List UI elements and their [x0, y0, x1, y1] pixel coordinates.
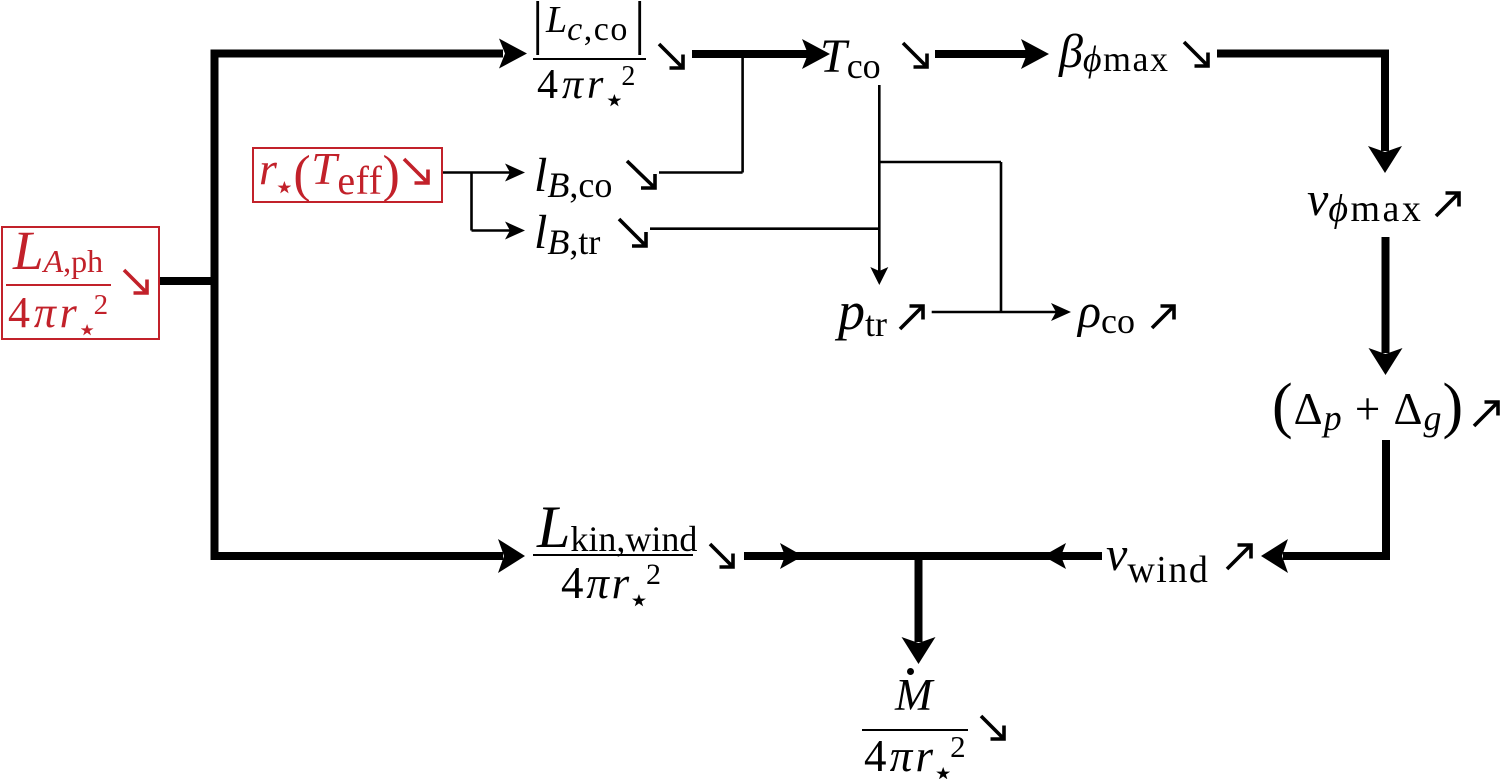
node Mdot overdot	[907, 668, 914, 675]
wire: bottom arrow trunk to L_kin,wind	[211, 539, 526, 573]
node l_B,co	[534, 152, 612, 200]
wire: arrow T_co to beta_phimax	[935, 39, 1049, 69]
node Mdot bar	[862, 729, 968, 731]
wire: Delta sum down then left arrow to v_wind	[1261, 440, 1390, 573]
arrow: red decrease inside r_star box	[404, 159, 428, 183]
arrow: decrease after l_B,tr	[619, 219, 646, 246]
node l_B,tr	[534, 209, 600, 257]
wire: arrow L_c,co to T_co	[692, 39, 830, 69]
wire: p_tr to rho_co arrow	[932, 303, 1071, 321]
wire: l_B,co up to coronal heating arrow	[659, 56, 743, 173]
arrow: decrease after T_co	[903, 43, 927, 67]
wire: r_star box to l_B,co and l_B,tr branch	[441, 164, 525, 240]
delimiter bars of L_c,co numerator	[538, 1, 640, 55]
arrow: increase after v_phimax	[1436, 193, 1459, 216]
node L_c,co fraction	[546, 1, 629, 39]
node beta_phimax	[1059, 28, 1170, 76]
arrow: increase after p_tr	[900, 306, 923, 329]
wire: arrow v_phimax down to Delta sum	[1369, 237, 1403, 375]
arrow: increase after v_wind	[1227, 545, 1251, 569]
arrow: decrease after Mdot fraction	[981, 716, 1004, 739]
arrow: red decrease inside L_A,ph box	[124, 270, 147, 293]
wire: connector from L_A,ph box to trunk	[158, 277, 219, 285]
node L_A,ph fraction	[13, 223, 103, 278]
arrow: decrease after L_c,co fraction	[659, 44, 683, 68]
wire: beta_phimax right corner down to v_phimax	[1217, 50, 1402, 174]
node v_wind	[1106, 531, 1209, 579]
arrow: decrease after l_B,co	[627, 161, 655, 188]
node p_tr	[838, 284, 887, 338]
wire: junction line L_kin,wind and v_wind merging down to Mdot	[744, 543, 1102, 664]
node L_kin,wind fraction	[537, 497, 697, 557]
wire: l_B,tr to T_co column	[650, 227, 879, 230]
arrow: decrease after beta_phimax	[1184, 42, 1208, 66]
node T_co	[820, 33, 881, 81]
wire: top arrow trunk to L_c,co	[211, 39, 528, 69]
wire: T_co down arrow to p_tr	[870, 85, 888, 285]
wire: main trunk vertical from photosphere node	[211, 50, 219, 561]
node r_star(T_eff) red box	[252, 147, 443, 203]
node Mdot numerator	[895, 673, 933, 718]
node v_phimax	[1307, 176, 1423, 224]
node r_star(T_eff) text	[259, 142, 400, 194]
node Mdot denominator	[864, 734, 969, 779]
arrow: decrease after L_kin,wind fraction	[710, 544, 733, 567]
wire: branch T_co column to rho_co column	[879, 162, 1001, 312]
node L_A,ph red box	[1, 226, 160, 340]
node rho_co	[1078, 288, 1135, 336]
arrow: increase after rho_co	[1152, 306, 1174, 328]
arrow: increase after Delta sum	[1474, 402, 1498, 426]
node Delta sum	[1272, 373, 1464, 435]
